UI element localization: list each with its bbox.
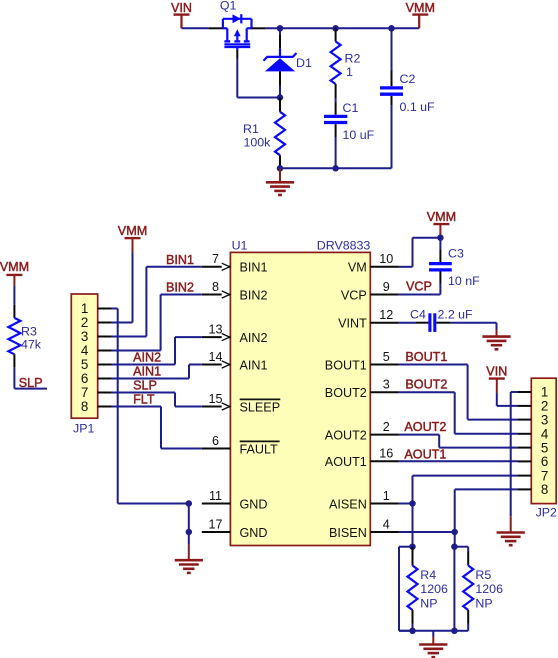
svg-text:6: 6 <box>81 371 88 386</box>
wire BIN1: JP1-3 to U1-7 <box>112 267 202 337</box>
connector JP2 pin 1 <box>518 385 548 400</box>
pin 3 BOUT2 (U1 right) <box>325 378 399 400</box>
svg-text:NP: NP <box>420 596 437 610</box>
wire GND to U1-11 <box>118 503 189 505</box>
svg-text:1206: 1206 <box>420 582 448 596</box>
svg-text:R4: R4 <box>420 568 436 582</box>
wire AISEN down to R4 <box>412 504 414 547</box>
svg-text:BIN1: BIN1 <box>166 253 194 267</box>
label JP2 <box>536 506 557 520</box>
node VMM C3 <box>437 234 444 241</box>
svg-text:3: 3 <box>541 412 548 427</box>
svg-text:10: 10 <box>379 252 393 266</box>
resistor R2 <box>331 28 341 98</box>
svg-text:SLEEP: SLEEP <box>240 400 281 414</box>
svg-text:AIN2: AIN2 <box>133 350 161 364</box>
wire GND JP2-1 <box>511 392 518 516</box>
svg-text:SLP: SLP <box>19 376 43 390</box>
pin 4 BISEN (U1 right) <box>329 517 399 539</box>
wire AIN1: JP1-6 to U1-14 <box>112 365 202 379</box>
wire R4 bypass bracket <box>399 547 413 631</box>
net label BOUT1 <box>405 350 447 364</box>
svg-text:AOUT2: AOUT2 <box>325 428 367 442</box>
connector JP2 pin 7 <box>518 468 548 483</box>
node Q1 gate / D1 / R1 <box>277 94 284 101</box>
svg-text:1: 1 <box>541 385 548 400</box>
svg-text:AIN1: AIN1 <box>133 364 161 378</box>
junction top rail at C2 <box>388 25 395 32</box>
svg-text:C2: C2 <box>400 72 416 86</box>
wire AOUT2: U1-2 to JP2-5 <box>399 435 518 448</box>
junction top rail at R2 <box>332 25 339 32</box>
pin 13 AIN2 (U1 left) <box>202 323 268 345</box>
wire VIN to JP2-2 <box>497 393 518 406</box>
supply VMM (top right) <box>406 1 435 29</box>
svg-text:13: 13 <box>208 323 222 337</box>
label D1 <box>296 56 312 70</box>
svg-text:12: 12 <box>379 308 393 322</box>
label JP1 <box>73 421 94 435</box>
svg-text:5: 5 <box>81 357 88 372</box>
connector JP2 <box>531 378 556 503</box>
svg-text:17: 17 <box>208 517 222 531</box>
label R1 100k <box>243 122 271 150</box>
label R2 1 <box>345 52 361 80</box>
net label AIN2 <box>133 350 161 364</box>
svg-text:VIN: VIN <box>486 364 507 378</box>
pin 9 VCP (U1 right) <box>341 280 399 302</box>
svg-text:D1: D1 <box>296 56 312 70</box>
svg-text:JP1: JP1 <box>73 421 94 435</box>
label DRV8833 <box>317 239 371 253</box>
label C2 0.1 uF <box>400 72 436 114</box>
svg-text:1206: 1206 <box>475 582 503 596</box>
resistor R1 <box>275 98 285 169</box>
svg-text:15: 15 <box>208 392 222 406</box>
svg-text:7: 7 <box>541 468 548 483</box>
svg-text:2: 2 <box>81 315 88 330</box>
svg-text:BISEN: BISEN <box>329 526 367 540</box>
net label SLP (left) <box>19 376 43 390</box>
ground (R4/R5) <box>419 631 447 657</box>
svg-text:FAULT: FAULT <box>240 442 279 456</box>
wire BISEN down to R5 <box>454 532 456 547</box>
pin 8 BIN2 (U1 left) <box>202 280 268 302</box>
svg-text:BOUT2: BOUT2 <box>325 386 367 400</box>
wire BOUT1: U1-5 to JP2-3 <box>399 365 518 420</box>
wire VCP: C3 to U1-9 <box>399 294 441 296</box>
svg-text:3: 3 <box>383 378 390 392</box>
connector JP1 pin 1 <box>81 301 112 316</box>
svg-text:1: 1 <box>346 65 353 79</box>
svg-text:VCP: VCP <box>341 288 367 302</box>
pin 12 VINT (U1 right) <box>338 308 399 330</box>
svg-text:AIN2: AIN2 <box>240 331 268 345</box>
node R4 bottom <box>409 628 416 635</box>
node GND at U1-17 <box>186 529 193 536</box>
pin 10 VM (U1 right) <box>348 252 399 274</box>
svg-text:10 nF: 10 nF <box>448 274 480 288</box>
connector JP2 pin 3 <box>518 412 548 427</box>
svg-text:6: 6 <box>541 454 548 469</box>
svg-text:7: 7 <box>212 252 219 266</box>
node R5 bottom <box>451 628 458 635</box>
junction bottom rail at C1 <box>332 165 339 172</box>
supply VMM (C3) <box>427 210 456 238</box>
pin 6 FAULT (U1 left) <box>202 434 280 456</box>
svg-text:DRV8833: DRV8833 <box>317 239 371 253</box>
resistor R3 <box>8 286 20 368</box>
wire VM to VMM <box>399 238 441 267</box>
svg-text:SLP: SLP <box>133 378 157 392</box>
svg-text:NP: NP <box>475 596 492 610</box>
svg-text:VIN: VIN <box>171 1 192 15</box>
wire BIN2: JP1-4 to U1-8 <box>112 295 202 351</box>
pin 17 GND (U1 left) <box>202 517 268 539</box>
wire VMM to JP1-2 <box>112 252 133 322</box>
connector JP1 pin 2 <box>81 315 112 330</box>
net label BIN2 <box>166 281 194 295</box>
svg-text:U1: U1 <box>232 239 248 253</box>
resistor R4 <box>408 547 418 631</box>
svg-text:AOUT1: AOUT1 <box>404 448 446 462</box>
wire AOUT1: U1-16 to JP2-6 <box>399 460 518 462</box>
svg-text:2.2 uF: 2.2 uF <box>438 308 474 322</box>
junction top rail at D1 <box>277 25 284 32</box>
connector JP1 pin 6 <box>81 371 112 386</box>
svg-text:11: 11 <box>209 489 222 503</box>
svg-text:8: 8 <box>81 399 88 414</box>
pin 1 AISEN (U1 right) <box>329 489 399 511</box>
svg-text:AIN1: AIN1 <box>240 358 268 372</box>
svg-text:R5: R5 <box>475 568 491 582</box>
svg-text:VMM: VMM <box>406 1 435 15</box>
svg-text:8: 8 <box>212 280 219 294</box>
label C1 10 uF <box>343 101 375 142</box>
svg-text:1: 1 <box>383 489 390 503</box>
svg-text:VCP: VCP <box>406 280 432 294</box>
wire BOUT2: U1-3 to JP2-4 <box>399 392 518 434</box>
svg-text:Q1: Q1 <box>220 0 237 13</box>
net label AOUT1 <box>404 448 446 462</box>
svg-text:VMM: VMM <box>0 260 29 274</box>
pin 15 SLEEP (U1 left) <box>202 392 280 414</box>
svg-text:GND: GND <box>240 497 268 511</box>
capacitor C1 <box>324 98 347 168</box>
svg-text:BIN2: BIN2 <box>240 288 268 302</box>
label R3 47k <box>21 325 42 352</box>
wire SLP: JP1-7 to U1-15 <box>112 393 202 407</box>
capacitor C2 <box>380 28 403 168</box>
svg-text:4: 4 <box>81 343 89 358</box>
net label AIN1 <box>133 364 161 378</box>
pin 14 AIN1 (U1 left) <box>202 350 268 372</box>
svg-text:16: 16 <box>379 447 393 461</box>
connector JP1 pin 5 <box>81 357 112 372</box>
wire D1 top <box>279 28 281 49</box>
label U1 <box>232 239 248 253</box>
connector JP1 pin 8 <box>81 399 112 414</box>
capacitor C4 <box>399 313 497 332</box>
label R5 1206 NP <box>475 568 503 611</box>
net label SLP <box>133 378 157 392</box>
pin 7 BIN1 (U1 left) <box>202 252 268 274</box>
svg-text:8: 8 <box>541 482 548 497</box>
node AISEN <box>409 500 416 507</box>
ground (top circuit) <box>266 168 294 195</box>
ground (C4) <box>482 323 510 350</box>
label C3 10 nF <box>448 247 480 289</box>
net label FLT <box>133 392 155 406</box>
node R4 top <box>409 543 416 550</box>
transistor Q1 (P-MOSFET) <box>223 14 252 50</box>
svg-text:VINT: VINT <box>338 317 367 331</box>
connector JP1 pin 3 <box>81 329 112 344</box>
supply VMM (JP1) <box>118 224 147 252</box>
wire R4/R5 bottom rail <box>399 630 454 632</box>
connector JP2 pin 8 <box>518 482 548 497</box>
connector JP2 pin 2 <box>518 399 548 414</box>
svg-text:BIN1: BIN1 <box>240 261 268 275</box>
label Q1 <box>220 0 237 13</box>
node R5 top <box>451 543 458 550</box>
connector JP2 pin 5 <box>518 440 548 455</box>
wire R3 to SLP stub <box>14 367 47 388</box>
svg-text:4: 4 <box>541 427 549 442</box>
svg-text:GND: GND <box>240 526 268 540</box>
svg-text:R3: R3 <box>21 325 37 339</box>
wire JP1-1 to GND net <box>112 309 118 504</box>
svg-text:5: 5 <box>383 350 390 364</box>
connector JP1 pin 4 <box>81 343 112 358</box>
wire R5 bypass (straight) <box>453 547 455 631</box>
diode D1 (zener) <box>264 49 297 72</box>
supply VIN (JP2) <box>486 364 507 393</box>
ground (JP2) <box>497 516 525 545</box>
svg-text:AISEN: AISEN <box>329 497 367 511</box>
wire bottom rail <box>280 167 392 169</box>
svg-text:VM: VM <box>348 261 367 275</box>
svg-text:C3: C3 <box>448 247 464 261</box>
svg-text:5: 5 <box>541 440 548 455</box>
svg-text:4: 4 <box>383 517 390 531</box>
ground (U1) <box>175 532 203 573</box>
svg-text:14: 14 <box>208 350 222 364</box>
svg-text:3: 3 <box>81 329 88 344</box>
wire AISEN: U1-1 to JP2-7 and R4 <box>399 476 518 504</box>
capacitor C3 <box>429 238 452 295</box>
svg-text:BOUT1: BOUT1 <box>405 350 447 364</box>
svg-text:VMM: VMM <box>118 224 147 238</box>
net label BOUT2 <box>405 378 447 392</box>
pin 16 AOUT1 (U1 right) <box>325 447 399 469</box>
pin 5 BOUT1 (U1 right) <box>325 350 399 372</box>
supply VIN <box>171 1 192 29</box>
svg-text:BIN2: BIN2 <box>166 281 194 295</box>
svg-text:2: 2 <box>383 420 390 434</box>
wire FLT: JP1-8 to U1-6 <box>112 407 202 449</box>
pin 2 AOUT2 (U1 right) <box>325 420 399 442</box>
svg-text:FLT: FLT <box>133 392 155 406</box>
svg-text:VMM: VMM <box>427 210 456 224</box>
svg-text:R1: R1 <box>243 122 259 136</box>
svg-text:AOUT1: AOUT1 <box>325 455 367 469</box>
connector JP1 <box>71 294 97 418</box>
svg-text:BOUT2: BOUT2 <box>405 378 447 392</box>
wire VIN to Q1 source <box>182 27 223 29</box>
connector JP2 pin 6 <box>518 454 548 469</box>
svg-text:JP2: JP2 <box>536 506 557 520</box>
wire BISEN: U1-4 to JP2-8 and R5 <box>399 489 518 532</box>
svg-text:1: 1 <box>81 301 88 316</box>
junction bottom rail at R1 <box>277 165 284 172</box>
svg-text:10 uF: 10 uF <box>343 128 375 142</box>
net label VCP <box>406 280 432 294</box>
connector JP2 pin 4 <box>518 427 549 442</box>
svg-text:AOUT2: AOUT2 <box>404 420 446 434</box>
svg-text:9: 9 <box>383 280 390 294</box>
wire GND U1-11 to U1-17 <box>188 504 190 533</box>
svg-text:100k: 100k <box>244 136 272 150</box>
wire Q1 gate to node <box>237 50 280 98</box>
svg-text:7: 7 <box>81 385 88 400</box>
node GND at U1-11 <box>186 500 193 507</box>
supply VMM (left) <box>0 260 29 286</box>
svg-text:C4: C4 <box>410 307 426 321</box>
net label BIN1 <box>166 253 194 267</box>
svg-text:R2: R2 <box>345 52 361 66</box>
svg-text:BOUT1: BOUT1 <box>325 358 367 372</box>
svg-text:0.1 uF: 0.1 uF <box>400 100 436 114</box>
pin 11 GND (U1 left) <box>202 489 268 511</box>
label R4 1206 NP <box>420 568 448 611</box>
node BISEN <box>451 529 458 536</box>
svg-text:C1: C1 <box>343 101 359 115</box>
op-amp U1 DRV8833 body <box>230 252 370 545</box>
net label AOUT2 <box>404 420 446 434</box>
svg-text:6: 6 <box>212 434 219 448</box>
wire D1 bottom to node <box>279 71 281 97</box>
wire top rail to VMM <box>252 27 420 29</box>
resistor R5 <box>454 547 473 631</box>
svg-text:47k: 47k <box>21 338 42 352</box>
connector JP1 pin 7 <box>81 385 112 400</box>
label C4 2.2 uF <box>410 307 473 321</box>
wire AIN2: JP1-5 to U1-13 <box>112 337 202 364</box>
